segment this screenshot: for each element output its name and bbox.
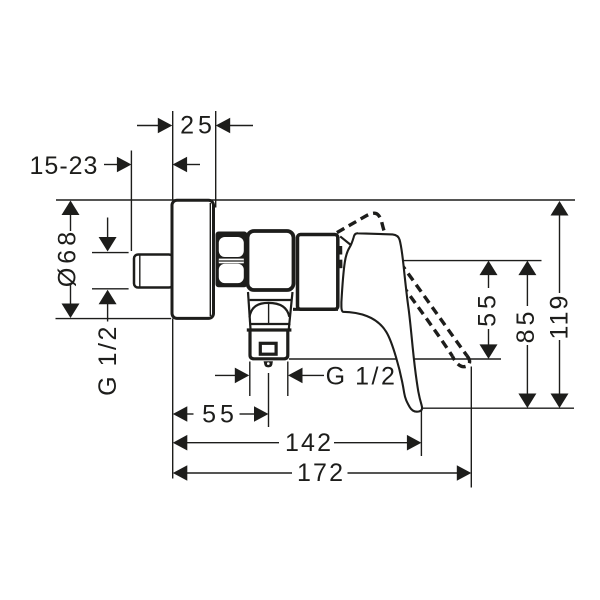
handle open position (dashed) lever tip [453,356,470,367]
wire connector-bottom extension line [92,288,129,290]
dimension 172 [173,459,472,487]
svg-text:55: 55 [474,291,502,327]
dimension 142 [173,429,422,457]
dimension 15-23 [30,152,200,180]
dimension 85 [512,261,540,408]
outlet tip [264,361,273,367]
wire 15-23 extension line [130,151,132,252]
wire top reference line [56,199,575,201]
wire outlet-center extension line [268,373,270,427]
svg-text:G 1/2: G 1/2 [94,324,122,396]
dimension connector thread pointers [99,218,117,322]
wire 85/119 bottom reference line [422,407,574,409]
svg-text:119: 119 [546,294,574,340]
svg-text:25: 25 [180,112,216,140]
svg-text:55: 55 [202,401,238,429]
dimension diameter 68 [54,201,82,319]
wire left extension line under escutcheon [172,319,174,479]
dimension G1/2 outlet [215,363,397,391]
escutcheon (wall plate) [172,200,214,318]
cartridge housing [293,235,338,310]
handle open position (dashed) left edge [339,246,343,273]
wire 55/85 top reference line [400,260,541,262]
wire outlet-left extension line [249,362,251,397]
inlet connector (wall side) [134,255,173,288]
handle open position (dashed) lever lower edge [402,285,452,356]
svg-text:Ø68: Ø68 [54,228,82,287]
wire outlet-right extension line [287,362,289,397]
outlet taper section [248,292,293,329]
valve main body [248,231,294,290]
outlet square nut G1/2 [260,343,276,354]
dimension 119 [546,201,574,408]
svg-text:142: 142 [285,429,333,457]
dimension 25 [137,112,253,140]
svg-text:85: 85 [512,308,540,344]
handle open position (dashed) grip hump [337,213,385,232]
svg-text:15-23: 15-23 [30,152,99,180]
outlet block [247,330,292,359]
wire 172 extension line [470,367,472,488]
handle neck wedge line [340,236,351,245]
wire 25-right extension line [215,111,217,208]
wire 55 bottom reference line [289,358,501,360]
svg-text:172: 172 [297,459,345,487]
hex nut connector [216,232,248,288]
wire 25-left extension line [172,111,174,200]
wire 142 extension line [420,411,422,457]
svg-text:G 1/2: G 1/2 [326,363,398,391]
dimension 55 bottom [173,401,269,429]
handle open position (dashed) lever upper edge [400,263,467,356]
wire escutcheon-bottom extension line [56,318,172,320]
wire connector-top extension line [92,252,129,254]
dimension 55 right [474,261,502,359]
handle (solid) [340,233,422,411]
